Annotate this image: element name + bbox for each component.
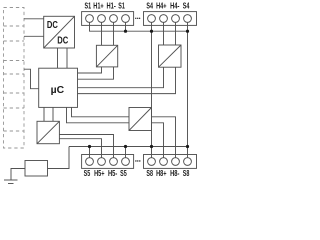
junction S1 right / bus (124, 30, 127, 33)
wire filter to ground (11, 169, 25, 181)
isolator U2 (top right channel) (159, 45, 182, 67)
isolator U1 (top left channel) (96, 45, 117, 67)
terminal block X4 (S8 H8+ H8- S8) (144, 155, 197, 169)
ellipsis top (135, 18, 140, 19)
svg-text:H8+: H8+ (156, 169, 167, 178)
wire DC/DC to uC pin2 (66, 48, 68, 68)
wire S4 right to bus (187, 22, 189, 31)
isolator U4 (bottom right channel) (129, 108, 152, 131)
isolator U3 (bottom left channel) (37, 121, 59, 143)
wire S8 left (151, 147, 153, 158)
svg-text:S4: S4 (183, 1, 190, 10)
svg-text:S1: S1 (85, 1, 92, 10)
junction S8 right / bus (186, 145, 189, 148)
wire bus to DC/DC pin1 (24, 18, 44, 20)
wire vertical bus right (187, 31, 189, 146)
svg-text:S1: S1 (118, 1, 125, 10)
junction S4 left / bus (150, 30, 153, 33)
wire top shield bus (90, 22, 188, 31)
wire bus to DC/DC pin2 (24, 35, 44, 37)
wire uC to U3 a (43, 107, 45, 121)
wire H1- to U1 (113, 22, 115, 45)
junction S8 left / bus (150, 145, 153, 148)
svg-text:DC: DC (47, 19, 58, 31)
svg-text:H1+: H1+ (93, 1, 104, 10)
wire H1+ to U1 (101, 22, 103, 45)
terminal block X1 (S1 H1+ H1- S1) (82, 12, 134, 26)
wire H4+ to U2 (163, 22, 165, 45)
wire U4 to H8- (152, 117, 176, 158)
wire vertical bus left (151, 31, 153, 146)
svg-text:DC: DC (57, 35, 68, 47)
wire DC/DC to uC pin1 (57, 48, 59, 68)
wire uC to U4 b (67, 107, 130, 122)
svg-text:S8: S8 (183, 169, 190, 178)
wire S4 left to bus (151, 22, 153, 31)
svg-text:H4+: H4+ (156, 1, 167, 10)
wire bottom shield bus (69, 146, 188, 148)
wire S1 right to bus (125, 22, 127, 31)
svg-text:H1-: H1- (107, 1, 117, 10)
bus connector (dashed strip) (4, 8, 25, 149)
svg-text:S8: S8 (146, 169, 153, 178)
svg-text:H5+: H5+ (94, 169, 105, 178)
svg-text:H8-: H8- (170, 169, 180, 178)
svg-text:S5: S5 (120, 169, 127, 178)
microcontroller uC (39, 68, 78, 107)
wire bus to filter (48, 147, 70, 169)
svg-text:µC: µC (51, 85, 65, 96)
wire S8 right (187, 147, 189, 158)
filter block to ground (25, 161, 48, 177)
wire uC to U2 b (78, 67, 176, 93)
ground (4, 180, 18, 184)
wire H4- to U2 (175, 22, 177, 45)
wire S5 left (89, 147, 91, 158)
svg-text:S4: S4 (146, 1, 153, 10)
wire S5 right (125, 147, 127, 158)
wire bus to uC (24, 69, 39, 89)
ellipsis bottom (135, 160, 140, 161)
junction S4 right / bus (186, 30, 189, 33)
wire U3 to H5+ (59, 139, 101, 158)
DC/DC converter (44, 16, 75, 48)
terminal block X3 (S5 H5+ H5- S5) (82, 155, 134, 169)
wire uC to U3 b (52, 107, 54, 121)
svg-text:S5: S5 (84, 169, 91, 178)
wire U1 to uC a (78, 67, 102, 73)
svg-text:H5-: H5- (108, 169, 118, 178)
wire U3 to H5- (59, 135, 113, 158)
junction S5 right / bus (124, 145, 127, 148)
terminal block X2 (S4 H4+ H4- S4) (144, 12, 197, 26)
wire U4 to H8+ (152, 123, 164, 158)
wire U1 to uC b (78, 67, 114, 79)
wire uC to U2 a (78, 67, 164, 88)
wire uC to U4 a (72, 107, 130, 116)
svg-text:H4-: H4- (170, 1, 180, 10)
junction S5 left / bus (88, 145, 91, 148)
